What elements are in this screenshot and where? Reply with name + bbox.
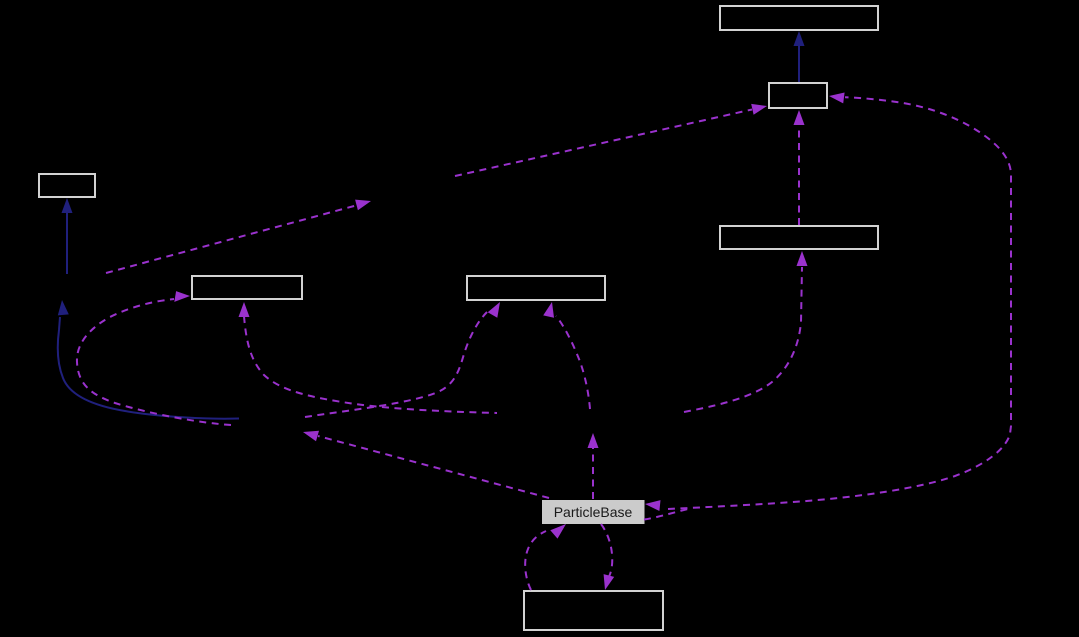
usage edge diagonal upper segment into B left (purple dashed) xyxy=(455,104,767,176)
usage edge C to B (purple dashed vertical) xyxy=(794,110,805,225)
usage edge into C bottom (purple dashed curve) xyxy=(684,251,808,412)
inheritance edge B to A (blue solid) xyxy=(794,31,805,82)
usage arrow into ParticleBase right (purple) xyxy=(645,500,661,511)
inheritance edge segment to E (blue solid upper part) xyxy=(62,198,73,274)
usage loop G to ParticleBase left branch (purple dashed) xyxy=(525,524,566,590)
usage edge into F left (purple dashed curve) xyxy=(77,291,231,425)
usage edge into D bottom-left (purple dashed curve) xyxy=(305,302,500,417)
node A (top right box) xyxy=(720,6,878,30)
node B (small box under A) xyxy=(769,83,827,108)
node C (right middle box) xyxy=(720,226,878,249)
node E (left small box) xyxy=(39,174,95,197)
usage loop ParticleBase to G right branch (purple dashed) xyxy=(601,524,614,590)
node D (center box) xyxy=(467,276,605,300)
usage long right curve into B right (purple dashed) xyxy=(668,93,1011,510)
usage edge into D bottom-right (purple dashed curve) xyxy=(543,302,590,409)
inheritance edge curve lower part (blue solid) xyxy=(58,300,239,419)
usage edge from F bottom rightwards (purple dashed) xyxy=(239,302,498,413)
usage edge diagonal lower segment (purple dashed) xyxy=(106,200,371,273)
usage edge tail from ParticleBase right (purple dashed stub) xyxy=(644,509,690,520)
node F (left middle box) xyxy=(192,276,302,299)
svg-text:ParticleBase: ParticleBase xyxy=(554,504,633,520)
node ParticleBase xyxy=(543,501,645,524)
usage edge from ParticleBase up-left, arrow mid-air (purple dashed) xyxy=(303,431,549,498)
usage edge ParticleBase up vertical, arrow mid-air (purple dashed) xyxy=(588,433,599,499)
node G (bottom box) xyxy=(524,591,663,630)
